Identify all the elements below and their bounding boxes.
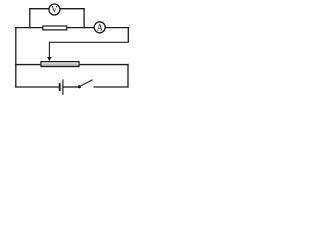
wire: voltmeter branch right vertical x=84.1 bbox=[83, 8, 85, 28]
wire: right lower vertical x=128 bbox=[127, 64, 129, 88]
switch S1 blade bbox=[80, 80, 93, 87]
voltmeter U1 circle bbox=[49, 4, 60, 15]
wiper arrowhead bbox=[47, 57, 51, 61]
ammeter U2 circle bbox=[94, 22, 105, 33]
svg-text:A: A bbox=[96, 22, 103, 32]
wire: rheostat wiper horizontal y=42.3 bbox=[49, 41, 128, 43]
wire: battery to switch pivot bbox=[63, 86, 78, 88]
resistor R1 bbox=[43, 26, 67, 30]
wire: main horizontal through resistor and ammeter y=27.6 bbox=[15, 27, 129, 29]
wire: bottom left horizontal y=87 bbox=[15, 86, 59, 88]
battery BT1 short thick plate bbox=[59, 83, 61, 91]
wire: rheostat right lead to right vertical bbox=[80, 64, 129, 66]
wire: middle horizontal through rheostat y=64.4 bbox=[15, 64, 40, 66]
wire: left outer vertical x=15.8 bbox=[15, 27, 17, 88]
wire: switch right stub to bottom right corner bbox=[94, 86, 129, 88]
rheostat R2 box bbox=[41, 62, 79, 67]
switch S1 pivot dot bbox=[78, 85, 81, 88]
wire: right upper vertical x=128.3 from main wire down to wiper wire bbox=[127, 27, 129, 42]
wire: top voltmeter branch horizontal y=8.7 from x=29.8 to x=84.1 bbox=[29, 8, 84, 10]
wire: voltmeter branch left vertical x=29.8 bbox=[29, 8, 31, 28]
svg-text:V: V bbox=[51, 5, 58, 15]
wire: wiper arrow shaft x=49.4 bbox=[48, 42, 50, 58]
battery BT1 long thin plate bbox=[62, 79, 64, 94]
